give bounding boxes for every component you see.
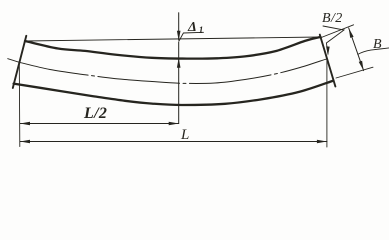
arrowhead B bottom (359, 61, 364, 71)
dim line L (20, 141, 327, 143)
bar top edge (25, 37, 321, 59)
chord reference line (25, 37, 321, 41)
left extension line (18, 63, 21, 147)
arrowhead delta1 up at top edge (177, 58, 181, 68)
dim line L/2 (20, 123, 179, 125)
delta1 leader (179, 32, 204, 41)
bar left end face (13, 36, 26, 88)
arrowhead L left (20, 140, 30, 144)
arrowhead delta1 down at chord (177, 31, 181, 41)
bar right end face (320, 35, 336, 87)
bar centerline (dash-dot) (8, 59, 327, 84)
label L (181, 127, 189, 144)
dim delta1 lower line through bar (178, 42, 180, 124)
B label underline and leader (358, 48, 389, 55)
label B (373, 37, 382, 53)
label B/2 (322, 11, 343, 27)
label L/2 (84, 105, 107, 123)
B top extension line (320, 25, 354, 38)
B bottom extension line (336, 67, 373, 78)
arrowhead B/2 at end-face midpoint (326, 46, 330, 55)
arrowhead L/2 left (20, 122, 30, 126)
right extension line (326, 60, 328, 148)
dim delta1 upper line (178, 13, 180, 40)
B/2 underline and leader (323, 26, 344, 54)
arrowhead L right (317, 140, 327, 144)
label Delta1 (188, 20, 203, 36)
bar bottom edge (14, 81, 334, 105)
arrowhead L/2 right (169, 122, 179, 126)
B dimension line (349, 28, 364, 71)
arrowhead B top (349, 28, 354, 38)
